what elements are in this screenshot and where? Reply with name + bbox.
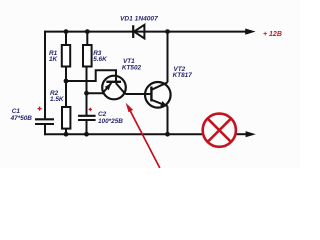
lamp HL1 xyxy=(203,114,236,147)
wire VT2 collector vertical xyxy=(167,32,169,83)
wire C2 bottom lead xyxy=(86,121,88,135)
wire top rail xyxy=(44,31,247,33)
node junction dots xyxy=(64,29,170,136)
capacitor C2 xyxy=(78,116,96,120)
svg-text:VD1 1N4007: VD1 1N4007 xyxy=(120,15,158,22)
resistor R2 xyxy=(62,107,70,129)
wire VT1 base staircase xyxy=(66,70,116,82)
wire R2 bottom lead xyxy=(65,129,67,136)
arrowhead top right (+12V feed) xyxy=(245,29,255,35)
svg-text:1K: 1K xyxy=(49,56,58,63)
wire R1 bottom lead to node xyxy=(65,67,67,108)
wire bottom rail xyxy=(44,133,203,135)
red pointer arrow xyxy=(126,103,160,168)
C1 plus sign xyxy=(38,107,42,111)
wire R3 top lead xyxy=(86,32,88,45)
svg-text:+ 12B: + 12B xyxy=(263,31,282,38)
wire VT1 collector to VT2 base xyxy=(125,93,151,95)
wire left rail lower xyxy=(44,125,46,135)
svg-text:100*25B: 100*25B xyxy=(98,118,123,125)
arrowhead bottom right (lamp output) xyxy=(246,131,256,137)
resistor R3 xyxy=(83,45,92,67)
wire left rail upper xyxy=(44,31,46,119)
wire R3 bottom lead / C2 column xyxy=(86,67,88,116)
transistor VT2 KT817 xyxy=(145,82,171,108)
resistor R1 xyxy=(62,45,70,67)
wire VT2 emitter vertical xyxy=(167,106,169,135)
svg-text:47*50B: 47*50B xyxy=(10,115,33,122)
svg-text:KT502: KT502 xyxy=(122,65,142,72)
C2 plus sign xyxy=(89,108,92,111)
capacitor C1 xyxy=(35,119,54,124)
transistor VT1 KT502 xyxy=(102,76,126,100)
svg-text:KT817: KT817 xyxy=(173,72,193,79)
diode VD1 xyxy=(133,25,144,39)
svg-text:1.5K: 1.5K xyxy=(50,96,64,103)
svg-text:5.6K: 5.6K xyxy=(93,56,107,63)
wire VT1 emitter horizontal xyxy=(87,92,104,94)
wire bottom right to lamp arrow xyxy=(236,133,248,135)
wire R1 top lead xyxy=(65,32,67,45)
